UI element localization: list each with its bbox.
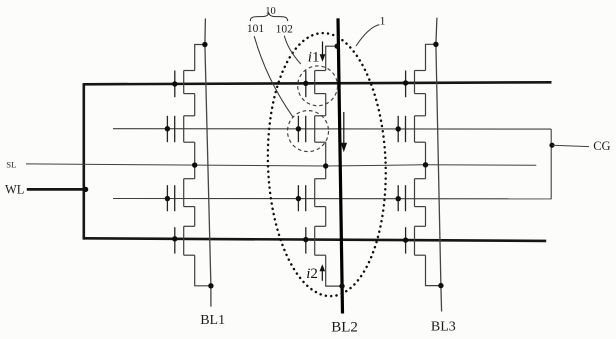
transistor: top select gate transistor, column 3, row A (406, 71, 426, 98)
junction: control gate of row-B cell col 1 on upper CG line (165, 126, 170, 131)
transistor: floating-gate memory cell, column 1, row B (upper CG row) (167, 116, 194, 142)
junction: control gate of row-C cell col 1 on lower CG line (165, 196, 170, 201)
junction: column 2 string taps bit line (top) (335, 44, 340, 49)
wire: column 1 series rail between row C and row D (194, 207, 196, 227)
svg-text:SL: SL (6, 159, 16, 169)
junction: control gate of row-C cell col 2 on lower CG line (296, 196, 301, 201)
dotted ellipse highlighting selected column (net 1) (263, 31, 390, 298)
junction: column 1 rail taps source line SL (192, 162, 197, 167)
wire: column 2 series rail between row C and row D (325, 207, 327, 227)
wire: column 3 series rail between row B and row C crossing SL (425, 142, 427, 179)
dashed circle around selected top select transistor (101) (298, 66, 338, 106)
transistor: floating-gate memory cell, column 2, row C (lower CG row) (298, 179, 325, 212)
arrow: read current flow along selected string (mid, downward) (341, 112, 347, 152)
junction: column 3 string taps bit line (top) (433, 42, 438, 47)
wire: source line SL horizontal (26, 164, 536, 166)
junction: column 2 string taps bit line (bottom) (339, 283, 344, 288)
transistor: bottom select gate transistor, column 2, row D (306, 226, 326, 255)
label 101 with leader to dashed circle 102-cell region (247, 23, 293, 117)
wire: column 3 series rail between row A and row B (425, 94, 427, 116)
junction: control gate of row-B cell col 2 on upper CG line (296, 126, 301, 131)
wire: column 1 top link from bit line to select transistor drain (195, 45, 205, 71)
wire: column 3 top link from bit line to select transistor drain (426, 44, 436, 70)
junction: gate of bottom select transistor col 2 on bottom SG line (303, 237, 308, 242)
wire: WL stub from label to left bus (27, 188, 86, 191)
junction: gate of top select transistor col 2 on top SG line (303, 81, 308, 86)
junction: column 3 string taps bit line (bottom) (438, 283, 443, 288)
svg-text:101: 101 (247, 23, 265, 35)
junction: gate of top select transistor col 1 on top SG line (172, 81, 177, 86)
wire: column 2 top link from bit line to select transistor drain (326, 46, 338, 70)
arrow: i1 current direction (downward) (320, 42, 326, 62)
junction: WL joins left vertical bus (83, 187, 88, 192)
wire: column 2 series rail between row A and row B (325, 94, 327, 116)
brace under 10 grouping 101 and 102 (250, 13, 288, 21)
wire: column 2 series rail between row B and row C crossing SL (325, 142, 327, 179)
arrow: i2 current direction (upward) (320, 264, 326, 281)
label 1 with leader to ellipse (356, 16, 386, 46)
transistor: floating-gate memory cell, column 1, row C (lower CG row) (167, 179, 194, 212)
junction: column 3 rail taps source line SL (423, 162, 428, 167)
wire: word-line select row (bottom thick horizontal SG line) (84, 238, 547, 241)
svg-text:BL3: BL3 (431, 319, 456, 334)
junction: gate of bottom select transistor col 1 on bottom SG line (172, 236, 177, 241)
wire: bit line BL3 vertical (436, 18, 442, 312)
wire: bit line BL1 vertical (205, 18, 211, 306)
transistor: floating-gate memory cell, column 3, row C (lower CG row) (398, 179, 425, 212)
wire: control-gate row line CG lower (through row-3 cells) (113, 198, 551, 200)
wire: column 1 bottom link from select transistor source to bit line (195, 255, 211, 286)
svg-text:i2: i2 (306, 266, 318, 282)
wire: control-gate row line CG upper (through row-2 cells) (113, 128, 551, 130)
svg-text:1: 1 (380, 16, 386, 28)
junction: control gate of row-B cell col 3 on upper CG line (396, 126, 401, 131)
wire: column 1 series rail between row A and row B (194, 94, 196, 116)
junction: column 2 rail taps source line SL (323, 163, 328, 168)
wire: column 1 series rail between row B and row C crossing SL (194, 142, 196, 179)
dashed circle around selected memory cell (102) (288, 111, 329, 152)
wire: thick left vertical bus joining top and bottom select lines (83, 83, 86, 240)
svg-text:BL1: BL1 (200, 313, 225, 328)
junction: control gate of row-C cell col 3 on lower CG line (396, 196, 401, 201)
svg-text:102: 102 (276, 23, 294, 35)
junction: column 1 string taps bit line (top) (202, 42, 207, 47)
wire: column 2 bottom link from select transistor source to bit line (326, 255, 342, 286)
junction: gate of top select transistor col 3 on top SG line (403, 80, 408, 85)
junction: gate of bottom select transistor col 3 on bottom SG line (403, 237, 408, 242)
wire: CG stub to label (553, 145, 589, 146)
junction: CG tap on right vertical link (549, 143, 554, 148)
wire: column 3 series rail between row C and row D (425, 207, 427, 227)
wire: right vertical link joining both CG row lines (550, 129, 552, 199)
transistor: floating-gate memory cell, column 2, row B (upper CG row) (298, 116, 325, 142)
transistor: top select gate transistor, column 2, row A (306, 71, 326, 98)
transistor: floating-gate memory cell, column 3, row B (upper CG row) (398, 116, 425, 142)
svg-text:i1: i1 (308, 50, 320, 66)
label 102 with leader to dashed circle select region (276, 23, 301, 64)
transistor: bottom select gate transistor, column 3, row D (406, 226, 426, 255)
svg-text:WL: WL (5, 182, 24, 196)
svg-text:BL2: BL2 (331, 320, 358, 336)
svg-text:CG: CG (593, 139, 610, 153)
wire: column 3 bottom link from select transistor source to bit line (426, 255, 441, 285)
junction: column 1 string taps bit line (bottom) (208, 283, 213, 288)
wire: bit line BL2 vertical (bold selected bit line) (338, 18, 343, 313)
transistor: top select gate transistor, column 1, row A (175, 71, 195, 98)
transistor: bottom select gate transistor, column 1, row D (175, 226, 195, 255)
wire: word-line select row (top thick horizontal SG line) (84, 82, 552, 84)
